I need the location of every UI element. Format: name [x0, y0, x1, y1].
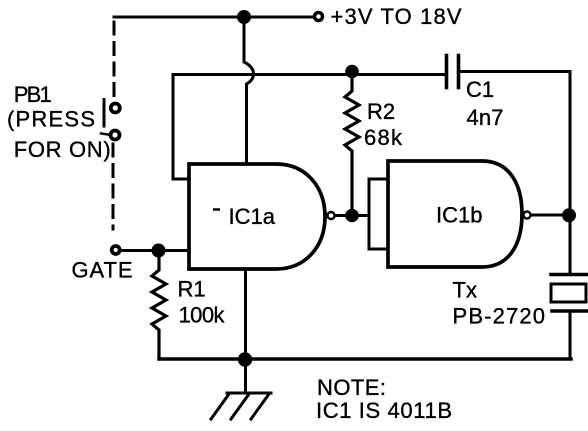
- svg-text:GATE: GATE: [72, 258, 133, 283]
- wire IC1a supply with hop over feedback: [244, 17, 254, 164]
- svg-text:(PRESS: (PRESS: [7, 107, 95, 132]
- wire gate input: [122, 249, 190, 252]
- svg-text:FOR ON): FOR ON): [14, 137, 111, 162]
- svg-text:4n7: 4n7: [467, 105, 504, 130]
- svg-text:Tx: Tx: [453, 278, 477, 303]
- wire C1 to right rail: [460, 70, 570, 73]
- wire right vertical rail: [569, 72, 572, 273]
- svg-text:NOTE:: NOTE:: [317, 375, 386, 400]
- svg-text:100k: 100k: [179, 303, 226, 328]
- svg-text:IC1 IS 4011B: IC1 IS 4011B: [316, 398, 452, 423]
- logic gate body IC1b NAND: [388, 161, 522, 267]
- wire bottom ground rail: [159, 357, 571, 360]
- svg-text:IC1b: IC1b: [436, 203, 482, 228]
- node IC1b output junction: [562, 208, 576, 222]
- wire IC1b input tie bracket: [369, 179, 388, 249]
- svg-text:R2: R2: [367, 99, 395, 124]
- wire pushbutton dashed upper: [113, 22, 116, 97]
- wire feedback node horizontal: [173, 73, 444, 76]
- svg-text:68k: 68k: [364, 125, 403, 150]
- scan tick artifact: [213, 208, 220, 211]
- wire pushbutton dashed lower: [112, 144, 115, 229]
- pushbutton PB1: [101, 100, 120, 140]
- transducer Tx PB-2720: [551, 275, 587, 360]
- node ground junction: [238, 352, 252, 366]
- svg-text:PB-2720: PB-2720: [453, 304, 546, 329]
- node feedback R2 junction: [345, 65, 359, 79]
- terminal GATE: [112, 246, 120, 254]
- svg-text:+3V TO 18V: +3V TO 18V: [331, 4, 462, 29]
- wire IC1a top input stub: [173, 75, 189, 180]
- svg-text:R1: R1: [178, 277, 206, 302]
- resistor R2: [345, 74, 359, 210]
- pin IC1b output bubble: [524, 212, 531, 219]
- wire IC1a output: [336, 214, 369, 217]
- svg-text:IC1a: IC1a: [229, 204, 276, 229]
- logic gate body IC1a NAND: [189, 164, 325, 269]
- terminal +3V supply: [315, 13, 323, 21]
- wire IC1a ground pin: [244, 269, 247, 359]
- wire top supply rail: [114, 16, 313, 19]
- svg-text:C1: C1: [466, 77, 494, 102]
- capacitor C1: [447, 56, 459, 88]
- wire IC1b output: [532, 214, 563, 217]
- svg-text:PB1: PB1: [14, 82, 52, 107]
- node supply junction: [237, 10, 251, 24]
- resistor R1: [152, 251, 166, 360]
- ground: [211, 359, 271, 419]
- pin IC1a output bubble: [328, 212, 335, 219]
- node gate junction: [152, 244, 166, 258]
- node IC1a output junction: [345, 209, 359, 223]
